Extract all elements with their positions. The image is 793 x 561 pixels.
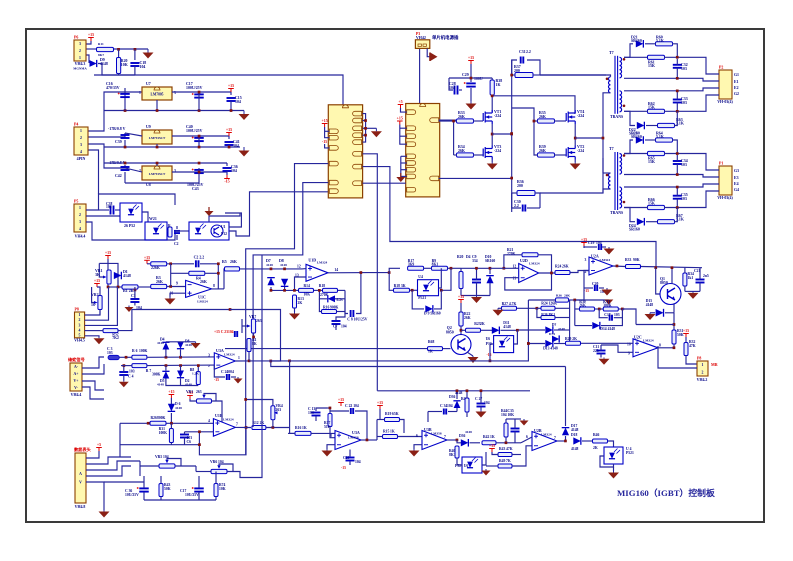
mosfet VT4	[566, 110, 575, 124]
svg-text:100U/25V: 100U/25V	[186, 86, 203, 90]
svg-text:R46: R46	[593, 433, 600, 437]
svg-text:-15: -15	[214, 378, 219, 382]
svg-text:C 8 10U/25V: C 8 10U/25V	[347, 318, 367, 322]
connector P8 VH4.5 (current setting)	[75, 312, 85, 338]
svg-text:R: R	[168, 224, 171, 228]
diode D11 4148	[492, 327, 500, 335]
wire	[114, 48, 148, 50]
svg-text:2K: 2K	[593, 446, 598, 450]
capacitor C17 100U/25V	[194, 94, 204, 97]
diode D14' 4148	[552, 335, 559, 342]
bottom clamp rail	[270, 287, 272, 290]
svg-text:TRANS: TRANS	[610, 115, 623, 119]
svg-text:+15: +15	[377, 400, 383, 405]
svg-text:U8: U8	[146, 183, 151, 187]
wire P8 pin1 to VR2	[85, 310, 100, 316]
svg-text:90K: 90K	[633, 258, 640, 262]
power +15 R32	[683, 334, 689, 338]
svg-text:4: 4	[79, 329, 81, 333]
ground Q2 emitter	[467, 352, 473, 356]
bus wires mid	[230, 310, 281, 362]
svg-text:T7: T7	[609, 50, 614, 55]
power +15 (P6)	[88, 38, 94, 42]
capacitor C13b 104	[312, 413, 321, 416]
svg-text:+15: +15	[489, 443, 495, 448]
svg-text:单片机电源插: 单片机电源插	[432, 34, 459, 41]
connector P6 VH4.3	[74, 40, 86, 61]
svg-text:C39: C39	[115, 140, 122, 144]
svg-text:VH42: VH42	[416, 35, 426, 40]
svg-text:P6: P6	[74, 36, 78, 40]
svg-text:26K: 26K	[464, 316, 471, 320]
ground KT1	[604, 300, 613, 305]
svg-text:U3A: U3A	[352, 430, 360, 435]
svg-text:D14 4148: D14 4148	[600, 327, 615, 331]
svg-text:+15: +15	[226, 127, 232, 132]
svg-text:1: 1	[80, 129, 82, 133]
svg-text:+15: +15	[88, 32, 94, 37]
diode D23 SR160	[624, 140, 633, 154]
svg-text:104: 104	[341, 325, 347, 329]
resistor R25 800K	[150, 421, 166, 425]
svg-text:900K: 900K	[330, 306, 339, 310]
svg-text:LM324: LM324	[643, 339, 654, 343]
diode D24 SR160	[624, 208, 635, 222]
power +15	[228, 89, 234, 93]
svg-text:103: 103	[614, 313, 620, 317]
svg-text:G4: G4	[734, 188, 739, 192]
wire IC1 right 153.8 down to rail B	[363, 154, 378, 391]
svg-text:U9: U9	[146, 125, 151, 129]
svg-text:R1 2K: R1 2K	[123, 289, 134, 293]
wire Q1 collector	[671, 268, 673, 284]
svg-text:104: 104	[235, 100, 241, 104]
resistor R41b 50K	[159, 484, 163, 497]
ground VT3	[491, 160, 493, 163]
wire U3B gnd	[414, 445, 422, 449]
svg-text:4148: 4148	[571, 447, 579, 451]
wire KT1 link	[636, 324, 674, 326]
svg-text:2: 2	[79, 213, 81, 217]
diode D10 SR160	[486, 276, 494, 284]
svg-text:LM324: LM324	[224, 353, 235, 357]
svg-text:26K: 26K	[230, 260, 237, 264]
wire top rail to VT4 drain	[492, 96, 575, 114]
diode D18 4148	[573, 437, 581, 445]
ground U6b	[482, 469, 491, 476]
ground C11	[599, 358, 610, 365]
capacitor C9 334	[472, 280, 481, 283]
power -15	[224, 175, 230, 179]
capacitor C42	[116, 165, 125, 168]
svg-text:1: 1	[79, 313, 81, 317]
svg-text:+15: +15	[94, 278, 100, 283]
svg-text:MGNMA: MGNMA	[73, 67, 87, 71]
svg-text:16-: 16-	[91, 303, 97, 307]
resistor R17b 51K	[328, 414, 332, 427]
wire loop	[86, 194, 175, 210]
optocoupler U16 PC817	[189, 222, 229, 240]
svg-text:LM7915CT: LM7915CT	[149, 172, 166, 176]
svg-text:100K: 100K	[159, 431, 168, 435]
power +15 R19	[377, 406, 383, 410]
svg-text:4148: 4148	[157, 341, 164, 345]
svg-text:R68: R68	[428, 340, 435, 344]
svg-text:P7: P7	[75, 449, 79, 453]
power +15 R43	[489, 449, 495, 453]
ground rail2	[125, 182, 199, 184]
resistor R13 2K	[293, 295, 297, 308]
svg-text:+15: +15	[228, 83, 234, 88]
capacitor C32 103	[673, 65, 682, 68]
svg-text:104: 104	[106, 205, 112, 209]
transistor Q2 8050	[451, 335, 471, 355]
resistor R61 15K	[624, 56, 648, 58]
power +15 VR1	[105, 256, 111, 260]
svg-text:VH4.4: VH4.4	[75, 235, 86, 239]
svg-text:200: 200	[514, 69, 520, 73]
svg-text:15K: 15K	[648, 106, 655, 110]
svg-text:1K: 1K	[390, 430, 395, 434]
svg-text:U6: U6	[486, 337, 491, 341]
svg-text:+15: +15	[338, 397, 344, 402]
svg-text:4: 4	[208, 419, 210, 423]
wire P8 pin3	[85, 287, 118, 325]
wire	[199, 171, 227, 173]
svg-text:R19: R19	[385, 412, 392, 416]
wire rows link	[119, 423, 121, 457]
wire primary T7b	[603, 172, 611, 174]
svg-text:103: 103	[681, 163, 687, 167]
svg-text:103: 103	[107, 351, 113, 355]
svg-text:C23: C23	[343, 456, 350, 460]
resistor R31 50K	[672, 330, 676, 344]
svg-text:VH4.8: VH4.8	[75, 505, 86, 509]
svg-text:P521: P521	[418, 296, 426, 300]
svg-text:12: 12	[297, 265, 301, 269]
resistor R5 26K	[225, 267, 240, 271]
rail	[104, 162, 227, 164]
IC U11 (left driver IC)	[328, 105, 362, 198]
svg-text:P12: P12	[221, 232, 227, 236]
svg-text:7: 7	[554, 436, 556, 440]
svg-text:R4: R4	[461, 397, 466, 401]
svg-text:V+: V+	[74, 379, 79, 383]
svg-text:VH4.3: VH4.3	[75, 62, 86, 66]
svg-text:7K: 7K	[506, 459, 511, 463]
svg-text:-15: -15	[341, 466, 346, 470]
svg-text:8K: 8K	[252, 342, 257, 346]
capacitor C16b 10U/25V	[139, 488, 149, 491]
regulator U9 LM7915CT	[142, 130, 172, 144]
capacitor C35b 104	[511, 429, 520, 432]
power +15 D6	[169, 395, 175, 399]
svg-text:E3: E3	[734, 176, 739, 180]
resistor R39 26K	[538, 153, 555, 157]
resistor R33 90K	[626, 265, 641, 269]
op-amp U2A LM324	[589, 257, 613, 275]
resistor R52 7K2	[85, 330, 96, 332]
svg-text:10U/25V: 10U/25V	[185, 493, 199, 497]
svg-text:226K: 226K	[151, 266, 160, 270]
junction	[117, 48, 120, 51]
op-amp U3A' LM324	[214, 353, 235, 370]
svg-text:26K: 26K	[156, 280, 163, 284]
wire IC2 top from P3	[419, 48, 421, 103]
svg-text:LM358: LM358	[348, 436, 359, 440]
svg-text:E2: E2	[734, 86, 739, 90]
svg-text:47K: 47K	[506, 447, 513, 451]
svg-text:R15: R15	[383, 430, 390, 434]
svg-text:+5: +5	[97, 442, 101, 447]
svg-text:1K: 1K	[428, 350, 433, 354]
svg-text:8050: 8050	[660, 281, 668, 285]
svg-text:223: 223	[593, 349, 599, 353]
wire input bus	[88, 92, 125, 131]
ground C20	[602, 288, 613, 296]
svg-text:-15: -15	[322, 140, 327, 144]
capacitor C29 100U	[466, 83, 476, 86]
potentiometer VR3	[197, 399, 212, 403]
resistor R46 2K	[593, 439, 608, 443]
svg-text:6: 6	[526, 435, 528, 439]
resistor R4 26K	[170, 264, 172, 287]
wire R feedback node	[569, 299, 571, 301]
svg-text:R5: R5	[222, 260, 227, 264]
svg-text:2.2: 2.2	[514, 204, 519, 208]
ground R13	[289, 312, 300, 320]
diode pair D5/D2 lower	[162, 371, 169, 378]
svg-text:C31: C31	[519, 50, 526, 54]
svg-text:D36: D36	[459, 434, 466, 438]
resistor R32 47K	[684, 343, 688, 356]
capacitor C17b 10U/25V	[194, 488, 204, 491]
wire +15 rail	[199, 92, 231, 95]
svg-text:LM324: LM324	[317, 261, 328, 265]
resistor R15 270K	[323, 288, 338, 292]
svg-text:5.1K: 5.1K	[656, 39, 664, 43]
svg-text:D13 4148: D13 4148	[543, 347, 558, 351]
svg-text:65K: 65K	[392, 412, 399, 416]
svg-text:C20: C20	[592, 282, 599, 286]
svg-text:3K: 3K	[95, 273, 100, 277]
connector P4 4PIN	[74, 127, 88, 155]
wire drop to R16 row	[290, 361, 295, 434]
svg-text:8K7: 8K7	[98, 53, 104, 57]
wire opto right	[439, 268, 442, 288]
svg-text:R36: R36	[556, 294, 562, 298]
wire P8 pin2	[85, 287, 109, 320]
svg-text:-15: -15	[584, 289, 589, 293]
resistor R34 26K	[457, 153, 474, 157]
diode D8 4148	[281, 279, 289, 287]
wire	[138, 286, 151, 288]
wire U3A' out	[235, 360, 249, 362]
optocoupler U10	[145, 222, 167, 240]
svg-text:8: 8	[330, 434, 332, 438]
wires P9	[82, 357, 104, 368]
svg-text:104: 104	[484, 401, 490, 405]
wire	[86, 48, 96, 50]
diode D7 4148	[266, 268, 302, 270]
ground VT2	[574, 160, 576, 163]
svg-text:4PIN: 4PIN	[77, 157, 86, 161]
capacitor C4 103	[119, 372, 128, 375]
svg-text:8: 8	[659, 344, 661, 348]
svg-text:Q2: Q2	[447, 326, 452, 330]
svg-text:C2 2.2: C2 2.2	[194, 256, 205, 260]
resistor R24 26K	[555, 271, 570, 275]
resistor R3 26K	[151, 284, 167, 288]
resistor R25' 26K	[556, 298, 569, 302]
svg-text:D 9 SR160: D 9 SR160	[424, 312, 441, 316]
svg-text:3: 3	[79, 42, 81, 46]
connector P1 VH-03(4)	[719, 166, 732, 195]
svg-text:U2C: U2C	[634, 335, 642, 340]
svg-text:9: 9	[176, 282, 178, 286]
svg-text:2: 2	[702, 371, 704, 375]
capacitor C34 103	[673, 161, 682, 164]
svg-text:C 4: C 4	[128, 375, 134, 379]
capacitor C6 103	[180, 435, 189, 438]
capacitor C27 104	[477, 404, 486, 407]
resistor R43 47K	[498, 453, 512, 457]
svg-text:+15: +15	[683, 328, 689, 333]
optocoupler U5 P521	[120, 203, 142, 222]
resistor R66 15K	[624, 186, 700, 188]
resistor R63 5.1K	[658, 123, 675, 127]
svg-text:-224: -224	[577, 149, 584, 153]
power +15 U3A	[338, 403, 344, 407]
ground rail P7	[144, 499, 216, 501]
svg-text:R43: R43	[499, 447, 506, 451]
svg-text:-17B/0.8 V: -17B/0.8 V	[108, 127, 126, 131]
ground P7	[99, 510, 110, 518]
resistor R8 1.2K	[196, 372, 200, 385]
svg-text:C 22 104: C 22 104	[345, 404, 359, 408]
svg-text:R24: R24	[555, 265, 562, 269]
svg-text:7: 7	[236, 423, 238, 427]
svg-text:1: 1	[238, 356, 240, 360]
diode D36 4148	[453, 401, 460, 408]
transformer T7	[615, 56, 618, 114]
svg-text:100K: 100K	[139, 349, 148, 353]
connector P8 MR	[697, 361, 708, 376]
wire	[86, 41, 91, 44]
svg-text:2K: 2K	[480, 322, 485, 326]
svg-text:1: 1	[139, 91, 141, 95]
svg-text:26K: 26K	[539, 149, 546, 153]
svg-text:R24 126K: R24 126K	[541, 302, 557, 306]
svg-text:26K: 26K	[200, 280, 207, 284]
svg-text:300K: 300K	[152, 373, 161, 377]
resistor R18 3K	[389, 273, 393, 291]
svg-text:10K: 10K	[121, 63, 128, 67]
svg-text:LM358: LM358	[431, 432, 442, 436]
svg-text:R49: R49	[499, 459, 506, 463]
svg-text:R18 3K: R18 3K	[394, 284, 406, 288]
svg-text:LM324: LM324	[223, 418, 234, 422]
svg-text:104: 104	[231, 169, 237, 173]
svg-text:104: 104	[449, 86, 455, 90]
optocoupler U4 P521	[418, 280, 439, 296]
resistor R12 2K	[252, 426, 266, 430]
IC2 left lower bracket	[401, 155, 407, 157]
svg-text:8K1: 8K1	[449, 453, 456, 457]
svg-text:R16: R16	[323, 306, 330, 310]
wire	[517, 307, 537, 309]
svg-text:P8: P8	[697, 357, 701, 361]
svg-text:26 P52: 26 P52	[124, 224, 135, 228]
potentiometer VR7	[251, 319, 255, 333]
op-amp U2C LM324	[633, 339, 658, 357]
resistor R44 vertical	[504, 423, 508, 437]
ground R27	[493, 308, 504, 316]
ground U1C+	[170, 293, 186, 297]
resistor R41 vertical	[465, 398, 469, 412]
svg-text:C29: C29	[462, 73, 469, 77]
svg-text:C42: C42	[115, 174, 122, 178]
resistor R62 15K	[624, 90, 700, 92]
transformer T7	[615, 152, 618, 210]
svg-text:R 6: R 6	[132, 349, 138, 353]
svg-text:3: 3	[79, 220, 81, 224]
resistor R42b 10K	[214, 484, 218, 497]
wire IC1-IC2 link	[363, 182, 406, 184]
ground D15	[645, 313, 656, 320]
diode D9 4148	[86, 55, 89, 63]
ground C19	[604, 247, 615, 255]
resistor R10 vertical	[247, 339, 251, 352]
svg-text:263: 263	[256, 319, 262, 323]
ground P8	[85, 336, 99, 337]
svg-text:10U/25V: 10U/25V	[125, 493, 139, 497]
svg-text:5.1K: 5.1K	[656, 135, 664, 139]
capacitor C41 104	[225, 142, 234, 145]
mosfet VT2	[566, 146, 575, 160]
resistor R68 1K base	[428, 347, 443, 351]
svg-text:104: 104	[355, 460, 361, 464]
wire primary T7a	[540, 75, 611, 77]
svg-text:C 24004: C 24004	[221, 370, 234, 374]
svg-text:-224: -224	[494, 114, 501, 118]
resistor R45	[167, 230, 172, 232]
svg-text:P8: P8	[75, 308, 79, 312]
svg-text:R11: R11	[98, 42, 104, 46]
svg-text:104: 104	[218, 460, 224, 464]
svg-text:VR3: VR3	[186, 390, 193, 394]
svg-text:-15: -15	[224, 179, 229, 184]
capacitor C24 004	[227, 374, 229, 380]
svg-text:LM324: LM324	[541, 433, 552, 437]
capacitor C16 470/35V	[124, 88, 126, 103]
svg-text:C1: C1	[131, 294, 136, 298]
svg-text:R14: R14	[304, 284, 311, 288]
svg-text:-15: -15	[487, 353, 492, 357]
connector P9 VH4.4	[70, 363, 82, 391]
svg-text:D4: D4	[466, 255, 471, 259]
svg-text:A: A	[79, 472, 82, 476]
capacitor C15 104	[227, 98, 236, 101]
svg-text:G1: G1	[734, 73, 739, 77]
wire bundle vertical x262	[261, 255, 263, 341]
wire	[624, 77, 700, 79]
wire U1B feedback	[185, 431, 214, 433]
svg-text:1: 1	[79, 206, 81, 210]
svg-text:P9: P9	[70, 359, 74, 363]
svg-text:G3: G3	[734, 169, 739, 173]
svg-text:104: 104	[596, 241, 602, 245]
